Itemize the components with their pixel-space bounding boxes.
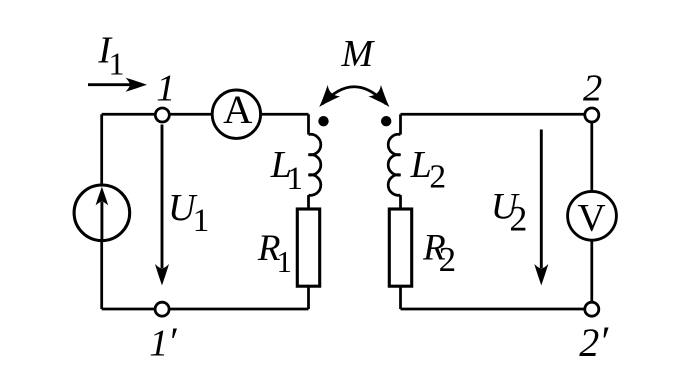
dot marker of L1: [318, 116, 328, 126]
resistor R1: [297, 209, 319, 286]
label R2: [422, 228, 456, 280]
resistor R2: [389, 209, 411, 286]
wire stub between L1 and R1: [307, 195, 310, 210]
svg-text:2′: 2′: [579, 319, 609, 365]
label 2: [583, 68, 602, 110]
wire stub below R1: [307, 287, 310, 310]
svg-text:1: 1: [156, 67, 175, 109]
wire bottom left horizontal: [102, 308, 309, 311]
wire right vertical: [590, 114, 593, 309]
terminal node 2': [585, 302, 599, 316]
ammeter A1: [212, 87, 260, 138]
dot marker of L2: [381, 116, 391, 126]
wire stub above L1: [307, 114, 310, 134]
wire top left horizontal: [102, 113, 309, 116]
label U2: [491, 187, 527, 239]
wire left vertical: [100, 114, 103, 309]
label 1': [149, 319, 177, 365]
label 2': [579, 319, 609, 365]
label U1: [168, 187, 209, 239]
terminal node 1': [155, 302, 169, 316]
terminal node 1: [155, 108, 169, 122]
wire stub above L2: [399, 114, 402, 134]
wire stub below R2: [399, 287, 402, 310]
label L1: [270, 144, 303, 197]
label M: [341, 33, 376, 75]
mutual coupling arrow M: [313, 85, 396, 113]
inductor L2 coil: [388, 134, 400, 195]
svg-text:1′: 1′: [149, 319, 177, 365]
svg-text:2: 2: [583, 68, 602, 110]
inductor L1 coil: [309, 134, 321, 195]
wire bottom right horizontal: [401, 308, 592, 311]
svg-text:A: A: [223, 87, 252, 132]
label I1: [97, 30, 124, 82]
label 1: [156, 67, 175, 109]
current arrow I1: [88, 78, 147, 92]
wire top right horizontal: [401, 113, 592, 116]
label R1: [257, 228, 292, 279]
label L2: [410, 144, 446, 196]
svg-text:M: M: [341, 33, 376, 75]
svg-text:V: V: [578, 196, 606, 239]
voltage arrow U1: [155, 125, 169, 286]
terminal node 2: [585, 108, 599, 122]
current source I: [74, 185, 130, 242]
voltage arrow U2: [534, 130, 548, 286]
wire stub between L2 and R2: [399, 195, 402, 210]
voltmeter V1: [568, 191, 617, 240]
